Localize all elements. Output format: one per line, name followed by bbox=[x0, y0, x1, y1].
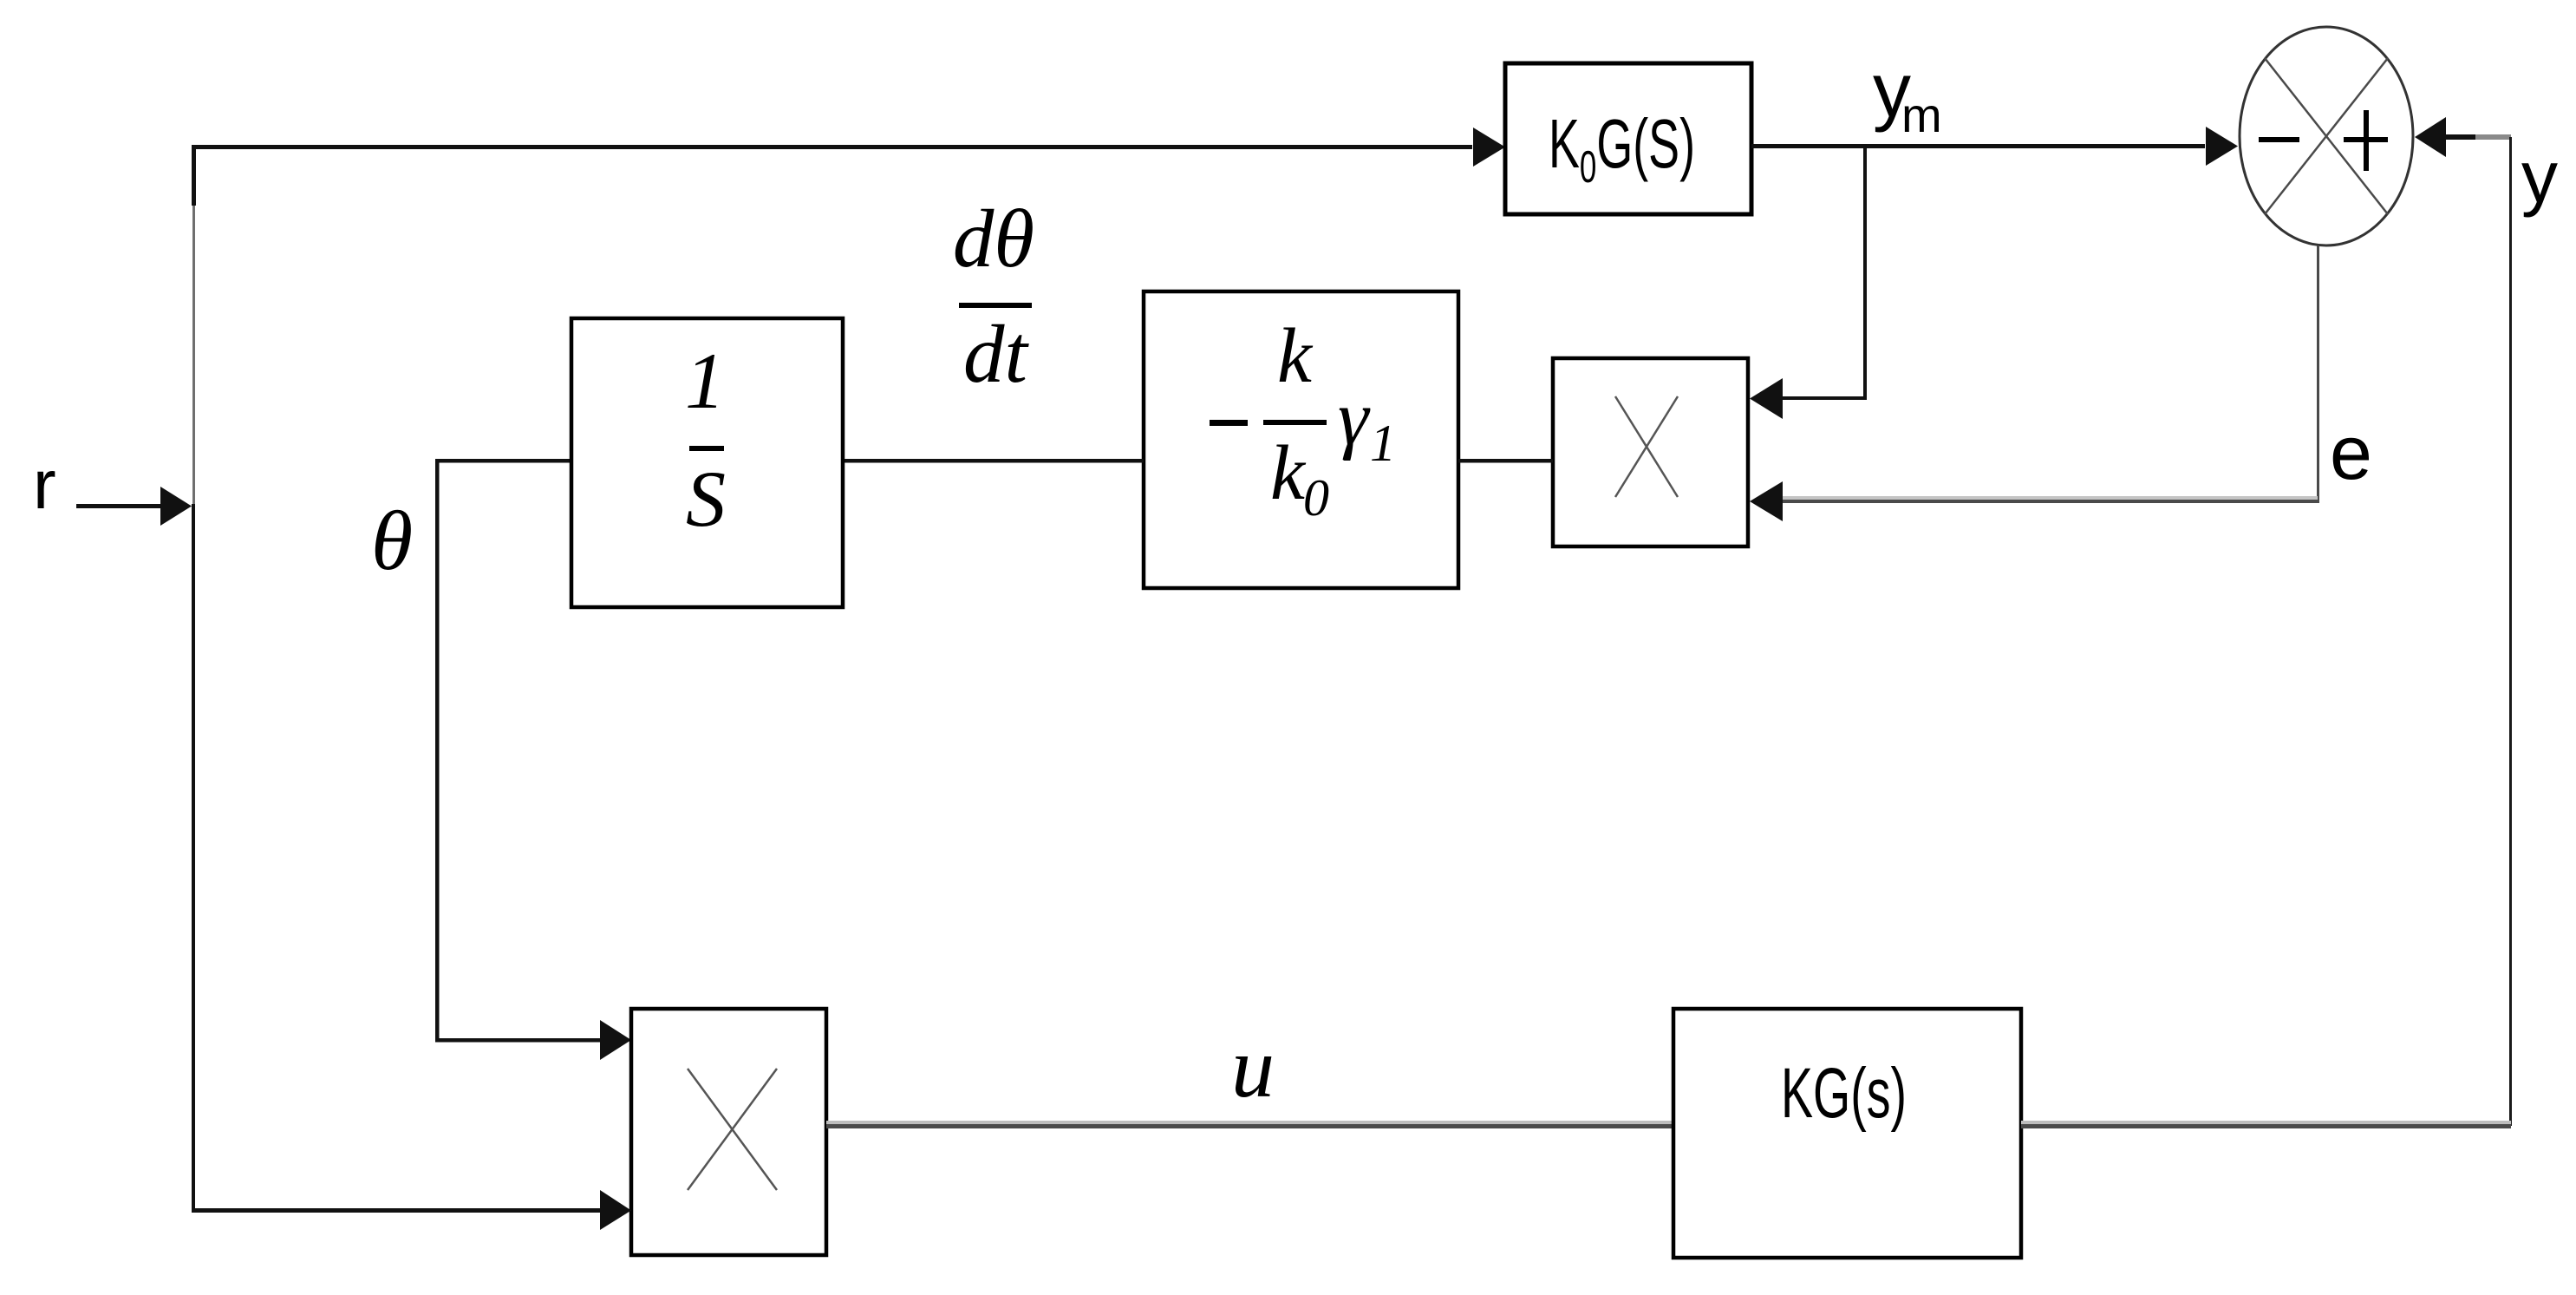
svg-text:K0G(S): K0G(S) bbox=[1549, 105, 1695, 193]
svg-text:1: 1 bbox=[1370, 415, 1396, 472]
svg-text:1: 1 bbox=[685, 337, 725, 425]
svg-text:e: e bbox=[2330, 409, 2372, 495]
svg-text:γ: γ bbox=[1338, 376, 1371, 461]
svg-text:0: 0 bbox=[1303, 469, 1329, 527]
svg-text:m: m bbox=[1901, 88, 1942, 142]
svg-text:dθ: dθ bbox=[953, 193, 1034, 285]
svg-text:r: r bbox=[33, 446, 56, 523]
svg-text:k: k bbox=[1277, 313, 1314, 399]
svg-text:y: y bbox=[2521, 136, 2558, 218]
svg-text:θ: θ bbox=[371, 494, 413, 588]
svg-text:KG(s): KG(s) bbox=[1781, 1054, 1907, 1133]
svg-text:u: u bbox=[1231, 1019, 1275, 1115]
svg-text:k: k bbox=[1270, 430, 1307, 516]
svg-text:dt: dt bbox=[963, 308, 1030, 400]
svg-text:S: S bbox=[686, 455, 726, 543]
